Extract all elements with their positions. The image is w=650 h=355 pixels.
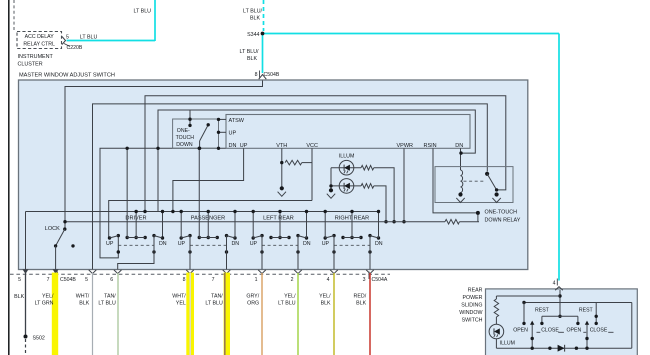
svg-text:LT BLU: LT BLU — [205, 300, 223, 306]
svg-text:3: 3 — [363, 277, 366, 283]
svg-text:LT BLU: LT BLU — [134, 9, 152, 15]
svg-text:YEL/: YEL/ — [319, 293, 331, 299]
svg-text:UP: UP — [106, 241, 114, 247]
svg-text:CLUSTER: CLUSTER — [18, 61, 43, 67]
svg-text:GRY/: GRY/ — [246, 293, 259, 299]
svg-text:BLK: BLK — [250, 15, 260, 21]
svg-text:UP: UP — [178, 241, 186, 247]
svg-text:UP: UP — [240, 143, 248, 149]
svg-text:MASTER WINDOW ADJUST SWITCH: MASTER WINDOW ADJUST SWITCH — [19, 73, 115, 79]
svg-text:ORG: ORG — [247, 300, 259, 306]
svg-text:VTH: VTH — [276, 143, 287, 149]
svg-text:4: 4 — [327, 277, 330, 283]
svg-text:7: 7 — [47, 277, 50, 283]
svg-text:UP: UP — [250, 241, 258, 247]
svg-text:TAN/: TAN/ — [104, 293, 116, 299]
svg-text:DN: DN — [303, 241, 311, 247]
svg-text:REST: REST — [535, 308, 550, 314]
svg-text:BLK: BLK — [79, 300, 89, 306]
svg-text:REST: REST — [579, 308, 594, 314]
svg-text:SLIDING: SLIDING — [461, 303, 482, 309]
svg-text:DN: DN — [231, 241, 239, 247]
svg-text:POWER: POWER — [462, 295, 482, 301]
svg-text:VCC: VCC — [306, 143, 318, 149]
svg-text:TOUCH: TOUCH — [176, 135, 195, 141]
svg-text:ACC DELAY: ACC DELAY — [25, 34, 55, 40]
svg-text:RELAY CTRL: RELAY CTRL — [23, 42, 55, 48]
svg-text:BLK: BLK — [14, 294, 24, 300]
svg-text:WHT/: WHT/ — [172, 293, 186, 299]
svg-text:WHT/: WHT/ — [76, 293, 90, 299]
svg-text:C504A: C504A — [372, 277, 388, 283]
svg-text:RED/: RED/ — [354, 293, 367, 299]
svg-text:INSTRUMENT: INSTRUMENT — [18, 54, 54, 60]
svg-text:DN: DN — [159, 241, 167, 247]
svg-text:C504B: C504B — [60, 277, 76, 283]
svg-text:6: 6 — [110, 277, 113, 283]
svg-text:CLOSE: CLOSE — [590, 327, 608, 333]
svg-text:4: 4 — [553, 281, 556, 287]
svg-text:RSIN: RSIN — [424, 143, 437, 149]
svg-text:5: 5 — [18, 277, 21, 283]
svg-text:LT BLU/: LT BLU/ — [243, 9, 262, 15]
svg-text:ILLUM: ILLUM — [500, 341, 515, 347]
svg-text:LOCK: LOCK — [45, 226, 60, 232]
svg-text:VPWR: VPWR — [397, 143, 414, 149]
svg-text:8: 8 — [255, 72, 258, 78]
svg-text:WINDOW: WINDOW — [459, 310, 482, 316]
svg-text:REAR: REAR — [468, 288, 483, 294]
svg-text:DOWN: DOWN — [176, 142, 193, 148]
svg-text:S344: S344 — [247, 32, 259, 38]
svg-text:LT BLU: LT BLU — [98, 300, 116, 306]
svg-text:UP: UP — [229, 130, 237, 136]
svg-text:LT BLU: LT BLU — [278, 300, 296, 306]
svg-text:YEL: YEL — [176, 300, 186, 306]
svg-text:BLK: BLK — [247, 56, 257, 62]
svg-text:LT BLU: LT BLU — [80, 34, 98, 40]
svg-text:LT GRN: LT GRN — [35, 300, 54, 306]
svg-text:C504B: C504B — [264, 72, 280, 78]
svg-text:1: 1 — [255, 277, 258, 283]
svg-text:SWITCH: SWITCH — [462, 318, 483, 324]
svg-text:ILLUM: ILLUM — [339, 153, 355, 159]
svg-text:YEL/: YEL/ — [42, 293, 54, 299]
svg-text:BLK: BLK — [321, 300, 331, 306]
svg-text:DN: DN — [229, 143, 237, 149]
svg-text:UP: UP — [322, 241, 330, 247]
svg-text:7: 7 — [212, 277, 215, 283]
svg-text:LT BLU/: LT BLU/ — [240, 49, 259, 55]
svg-text:S502: S502 — [33, 336, 45, 342]
svg-text:DN: DN — [455, 143, 463, 149]
svg-text:OPEN: OPEN — [567, 327, 582, 333]
svg-text:CLOSE: CLOSE — [541, 327, 559, 333]
svg-text:2: 2 — [291, 277, 294, 283]
svg-text:ATSW: ATSW — [229, 118, 245, 124]
svg-text:LEFT REAR: LEFT REAR — [263, 216, 294, 222]
svg-text:5: 5 — [85, 277, 88, 283]
svg-text:TAN/: TAN/ — [211, 293, 223, 299]
svg-text:BLK: BLK — [356, 300, 366, 306]
svg-text:DOWN RELAY: DOWN RELAY — [485, 217, 521, 223]
svg-text:ONE-: ONE- — [177, 128, 190, 134]
svg-text:ONE-TOUCH: ONE-TOUCH — [485, 209, 518, 215]
svg-text:DN: DN — [375, 241, 383, 247]
svg-text:8: 8 — [183, 277, 186, 283]
svg-text:OPEN: OPEN — [513, 327, 528, 333]
svg-text:YEL/: YEL/ — [284, 293, 296, 299]
